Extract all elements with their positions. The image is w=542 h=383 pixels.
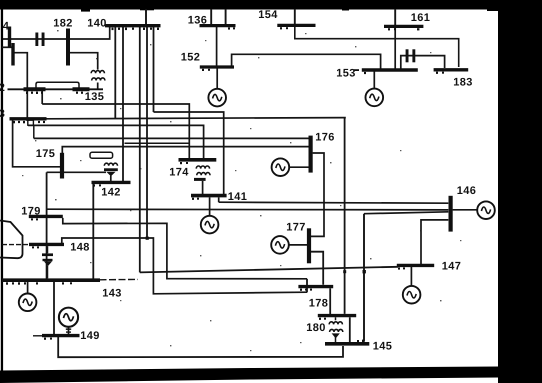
- svg-text:140: 140: [87, 18, 107, 30]
- svg-text:142: 142: [101, 187, 121, 199]
- svg-text:141: 141: [228, 191, 248, 203]
- svg-text:178: 178: [309, 298, 329, 310]
- svg-text:143: 143: [102, 288, 122, 300]
- svg-text:149: 149: [80, 330, 100, 342]
- svg-text:2: 2: [0, 82, 5, 94]
- svg-text:3: 3: [0, 108, 5, 120]
- svg-text:4: 4: [3, 21, 10, 33]
- svg-text:176: 176: [315, 132, 335, 144]
- svg-text:182: 182: [53, 18, 73, 30]
- svg-text:153: 153: [336, 68, 356, 80]
- svg-text:174: 174: [169, 167, 189, 179]
- svg-text:146: 146: [457, 185, 477, 197]
- svg-text:147: 147: [442, 261, 462, 273]
- svg-text:183: 183: [453, 77, 473, 89]
- svg-text:161: 161: [411, 12, 431, 24]
- svg-text:145: 145: [373, 341, 393, 353]
- svg-text:152: 152: [181, 52, 201, 64]
- svg-text:179: 179: [21, 206, 41, 218]
- svg-text:175: 175: [36, 148, 56, 160]
- svg-text:177: 177: [286, 222, 306, 234]
- svg-text:154: 154: [258, 9, 278, 21]
- svg-text:148: 148: [70, 242, 90, 254]
- svg-text:180: 180: [306, 322, 326, 334]
- svg-text:135: 135: [85, 91, 105, 103]
- svg-text:136: 136: [188, 15, 208, 27]
